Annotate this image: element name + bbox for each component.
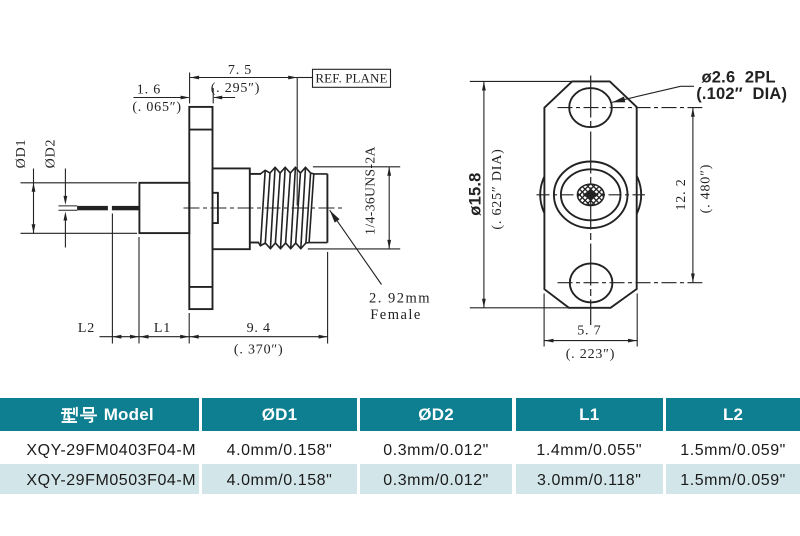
svg-text:9. 4: 9. 4 bbox=[247, 321, 271, 336]
REF. PLANE label box and reference plane line bbox=[297, 77, 312, 79]
svg-text:(. 480″): (. 480″) bbox=[698, 164, 713, 214]
front view: top mounting hole bbox=[569, 88, 612, 127]
side view: connector end face bbox=[326, 174, 328, 243]
side view: dielectric barrel (D1) bbox=[139, 183, 189, 233]
dimension 7.5 to ref plane bbox=[190, 77, 297, 79]
front view: bottom mounting hole bbox=[570, 263, 613, 302]
leader hole callout Ø2.6 2PL bbox=[612, 86, 681, 102]
svg-text:(. 223″): (. 223″) bbox=[566, 347, 616, 362]
svg-text:L1: L1 bbox=[154, 321, 171, 336]
svg-text:12. 2: 12. 2 bbox=[674, 179, 689, 211]
front view: outer interface circle bbox=[554, 162, 628, 229]
front view: vertical centerline bbox=[590, 76, 592, 326]
side view: center pin (D2) bbox=[77, 206, 108, 210]
svg-text:REF. PLANE: REF. PLANE bbox=[315, 71, 387, 86]
side view: thread crest profile (1/4-36UNS-2A) bbox=[261, 167, 328, 174]
svg-text:7. 5: 7. 5 bbox=[228, 63, 252, 78]
dimension 12.2 hole spacing bbox=[692, 108, 694, 283]
dimension 1.6 flange thickness bbox=[134, 97, 189, 99]
svg-text:1/4-36UNS-2A: 1/4-36UNS-2A bbox=[363, 146, 378, 235]
svg-text:(. 295″): (. 295″) bbox=[211, 81, 261, 96]
front view: female center contact (hatched) bbox=[577, 184, 604, 205]
svg-text:(. 625″ DIA): (. 625″ DIA) bbox=[490, 148, 505, 229]
svg-text:5. 7: 5. 7 bbox=[577, 324, 601, 339]
svg-text:ø2.6 2PL: ø2.6 2PL bbox=[702, 69, 776, 87]
dimension 5.7 flange width bbox=[543, 294, 545, 347]
side view: body between flange and thread bbox=[213, 168, 250, 249]
dimension thread callout 1/4-36UNS-2A bbox=[313, 166, 400, 168]
svg-text:Female: Female bbox=[370, 307, 422, 323]
svg-text:(. 065″): (. 065″) bbox=[132, 100, 182, 115]
table row 2 bbox=[0, 464, 199, 494]
svg-text:(.102″ DIA): (.102″ DIA) bbox=[696, 85, 787, 103]
side view: centerline bbox=[184, 207, 344, 209]
dimension L2 / L1 / 9.4 bottom bbox=[100, 336, 328, 338]
front view: bottom hole centerline bbox=[558, 282, 703, 284]
front view: horizontal centerline bbox=[537, 194, 646, 196]
dimension 15.8 flange height bbox=[470, 80, 573, 82]
svg-text:2. 92mm: 2. 92mm bbox=[369, 290, 431, 306]
svg-text:1. 6: 1. 6 bbox=[137, 83, 161, 98]
svg-text:(. 370″): (. 370″) bbox=[234, 343, 284, 358]
svg-text:ØD1: ØD1 bbox=[14, 139, 29, 169]
svg-text:ØD2: ØD2 bbox=[43, 139, 58, 169]
front view: dielectric circle bbox=[561, 169, 621, 220]
leader 2.92mm Female bbox=[330, 210, 382, 284]
dimension D2 (pin diameter) bbox=[59, 205, 78, 207]
table header row bbox=[0, 398, 199, 431]
front view: top hole centerline bbox=[558, 107, 703, 109]
front view: rear body circle (bulges beyond flange) bbox=[540, 149, 641, 241]
front view: flange outline with chamfered corners bbox=[544, 81, 636, 307]
svg-text:L2: L2 bbox=[78, 321, 95, 336]
table row 1 bbox=[0, 431, 199, 464]
svg-text:ø15.8: ø15.8 bbox=[466, 172, 484, 215]
side view: flange plate bbox=[189, 107, 212, 309]
side view: thread neck bbox=[250, 173, 261, 175]
dimension D1 (dielectric diameter) bbox=[21, 182, 138, 184]
side view: thread flank lines bbox=[261, 170, 266, 245]
